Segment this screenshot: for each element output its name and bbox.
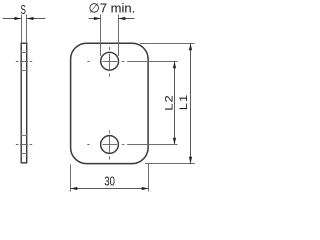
label 30 [104,175,115,189]
L1 dimension line with arrows [189,44,192,164]
30 dimension line with arrows [71,187,149,190]
dimension S line with arrows [3,17,46,20]
hidden line top hole lower edge (side view) [21,70,27,72]
top hole circle [101,52,119,70]
bottom hole circle [101,136,119,154]
diameter 7 dimension line with arrows [89,17,135,20]
centerline bottom hole (side view) [16,144,32,146]
hidden line bottom hole upper edge (side view) [21,135,27,137]
bottom hole horizontal centerline [87,144,124,146]
top hole vertical centerline [109,47,111,77]
label diameter 7 min. [89,1,136,16]
bottom hole vertical centerline [109,130,111,159]
svg-text:∅7 min.: ∅7 min. [89,1,136,16]
svg-text:30: 30 [104,175,115,189]
L2 dimension line with arrows [173,62,176,145]
30 dimension extension lines [71,164,149,192]
label L2 (rotated) [162,94,175,110]
hidden line bottom hole lower edge (side view) [21,153,27,155]
hidden line top hole upper edge (side view) [21,52,27,54]
svg-text:L2: L2 [162,94,175,110]
L2 dimension extension line bottom (from bottom hole centerline) [127,144,177,146]
top hole horizontal centerline [87,61,124,63]
side view plate outline [21,43,27,163]
svg-text:L1: L1 [177,94,190,110]
diameter 7 dimension extension lines [101,15,119,57]
svg-text:S: S [21,3,26,17]
centerline top hole (side view) [16,61,32,63]
dimension S extension lines [22,15,27,44]
L1 dimension extension line bottom (plate bottom edge) [145,163,195,165]
front view plate outline [71,43,149,163]
label S [21,3,26,17]
L1 dimension extension line top (plate top edge) [140,43,195,45]
L2 dimension extension line top (from top hole centerline) [127,61,177,63]
label L1 (rotated) [177,94,190,110]
